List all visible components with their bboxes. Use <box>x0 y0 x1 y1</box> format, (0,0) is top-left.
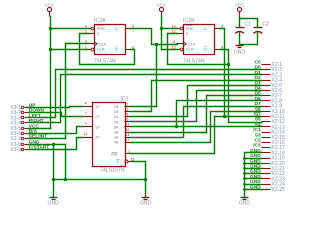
junction Q2 at X2-11 row <box>223 115 227 119</box>
connector pin X2-1 (C0) <box>262 62 283 68</box>
svg-text:3Y: 3Y <box>95 124 100 129</box>
svg-text:2: 2 <box>126 102 128 106</box>
wire into IC1 1B (pin 3) <box>131 111 152 113</box>
wire Q1 net down to IC1 1A <box>156 45 158 107</box>
wire D1 net X2-3 to X3-4 RIGHT <box>29 75 262 123</box>
connector pin X2-9 (D7) <box>262 104 283 110</box>
wire X3-7 SEL/INT to IC2A CLK (pin 3) <box>29 44 89 139</box>
wire /S7 net down to IC1 A/B <box>214 117 216 154</box>
wire D5 net X2-7 to IC1 3B (pin 10) <box>131 96 262 133</box>
ground symbol (middle) <box>140 198 152 207</box>
wire ground rail <box>54 179 146 181</box>
wire VCC to IC2A CLR (pin 1) <box>51 49 89 51</box>
connector pin X2-18 (GND) <box>262 150 286 156</box>
svg-text:VCC: VCC <box>45 3 55 8</box>
wire into IC1 1A (pin 2) <box>131 106 157 108</box>
wire S4 row IC1 3A (pin 11) to X2-13 <box>131 126 262 128</box>
wire VCC to IC2A PRE (pin 4) <box>51 28 89 30</box>
connector pin X3-1 (UP) <box>10 105 28 111</box>
junction GND row drop <box>52 143 56 147</box>
connector pin X2-20 (GND) <box>262 161 286 167</box>
wire VCC2 vertical <box>161 17 163 50</box>
junction GND rail <box>64 178 68 182</box>
svg-text:GND: GND <box>239 201 251 207</box>
junction bus X2-19 <box>243 157 246 160</box>
connector pin X2-4 (D2) <box>262 78 283 84</box>
wire IC2A Q (pin 5) to IC2B CLK (pin 11) <box>131 29 178 45</box>
junction VCC CLR1 <box>49 48 53 52</box>
svg-text:IC2A: IC2A <box>94 18 106 24</box>
wire GND row down to left GND symbol <box>53 145 55 197</box>
svg-text:4Y: 4Y <box>95 135 100 140</box>
connector pin X3-8 (GND) <box>10 142 28 148</box>
wire X3-6 B/A to IC1 3Y (pin 9) <box>29 127 83 134</box>
wire X2-25 to ground bus <box>245 189 262 191</box>
ground symbol (left) <box>48 198 60 207</box>
wire IC2B Q (pin 9) down to /S7 row <box>220 29 225 117</box>
junction VCC PRE1 <box>49 27 53 31</box>
connector pin X3-4 (RIGHT) <box>10 120 28 126</box>
junction bus X2-25 <box>243 188 246 191</box>
IC1 74LS157N quad 2-line multiplexer <box>83 97 135 174</box>
wire C1 bottom to ground <box>239 33 241 46</box>
capacitor C1 <box>235 22 251 34</box>
wire X2-24 to ground bus <box>245 184 262 186</box>
svg-text:15: 15 <box>131 157 135 161</box>
wire into IC1 A/B (pin 1) <box>131 153 215 155</box>
svg-text:GND: GND <box>48 201 60 207</box>
connector pin X2-16 (C2) <box>262 140 286 146</box>
wire /S7 row to X2-11 <box>215 116 262 118</box>
power symbol VCC (left, feeds IC2A PRE/CLR and X3-5) <box>45 3 55 17</box>
connector pin X2-7 (D5) <box>262 93 283 99</box>
connector pin X2-22 (GND) <box>262 171 286 177</box>
wire X3-2 DOWN to IC1 2Y (pin 7) <box>29 113 83 117</box>
svg-text:C2: C2 <box>262 22 269 28</box>
wire VCC to X3-5 <box>29 128 51 130</box>
svg-text:11: 11 <box>172 40 176 44</box>
connector pin X2-10 (S6) <box>262 109 286 115</box>
connector pin X2-23 (GND) <box>262 176 286 182</box>
wire X2-22 to ground bus <box>245 173 262 175</box>
connector pin X3-5 (VCC) <box>10 126 28 132</box>
wire VCC net vertical from VCC symbol down to X3-5 <box>50 17 52 129</box>
wire VCC3 branch to C2 top <box>240 19 258 28</box>
svg-text:G: G <box>116 159 119 164</box>
connector pin X2-11 (/S7) <box>262 114 285 120</box>
svg-text:14: 14 <box>125 133 129 137</box>
svg-text:74LS74N: 74LS74N <box>183 58 205 64</box>
wire IC2B Q-bar (pin 8) down to X2-12 S5 <box>220 50 262 123</box>
connector pin X3-7 (SEL/INT) <box>10 136 28 142</box>
wire D0 net X2-2 to X3-3 LEFT <box>29 70 262 118</box>
svg-text:6: 6 <box>126 118 128 122</box>
connector pin X2-14 (/C1) <box>262 130 286 136</box>
svg-text:74LS74N: 74LS74N <box>94 58 116 64</box>
junction bus X2-22 <box>243 172 246 175</box>
junction bus X2-21 <box>243 167 246 170</box>
junction VCC2 PRE2 <box>160 27 164 31</box>
svg-text:1: 1 <box>128 150 130 154</box>
svg-text:D: D <box>97 31 100 36</box>
connector pin X2-2 (D0) <box>262 67 283 73</box>
junction QB2 feedback <box>227 63 231 67</box>
wire D7 net X2-9 to IC1 4A (pin 14) <box>131 107 262 138</box>
wire X2-20 to ground bus <box>245 163 262 165</box>
svg-text:GND: GND <box>140 201 152 207</box>
svg-text:11: 11 <box>126 123 130 127</box>
connector pin X2-13 (S4) <box>262 124 286 130</box>
svg-text:1Y: 1Y <box>95 104 100 109</box>
wire X2-19 to ground bus <box>245 158 262 160</box>
connector pin X2-5 (D3) <box>262 83 283 89</box>
junction G rail <box>144 178 148 182</box>
svg-text:GND: GND <box>234 50 246 56</box>
capacitor C2 <box>253 22 269 34</box>
svg-text:X3-9: X3-9 <box>10 147 21 153</box>
wire C2 bottom joins C1 <box>240 33 258 45</box>
wire IC2B Q-bar feedback to IC2B D (pin 12) <box>168 34 229 65</box>
flip-flop IC2A 74LS74N <box>85 18 135 65</box>
ground symbol (capacitors) <box>234 46 246 56</box>
svg-text:4: 4 <box>85 101 87 105</box>
wire D3 net X2-5 to IC1 2A (pin 5) <box>131 86 262 117</box>
svg-text:C0: C0 <box>255 60 261 66</box>
svg-text:5: 5 <box>126 113 128 117</box>
wire X3-8 GND down to ground rail <box>29 145 66 180</box>
svg-text:12: 12 <box>84 132 88 136</box>
svg-text:IC2B: IC2B <box>183 18 195 24</box>
connector pin X2-8 (D6) <box>262 98 283 104</box>
wire X3-9 C/START to IC1 4Y (pin 12) <box>29 138 83 150</box>
svg-text:74LS157N: 74LS157N <box>100 167 125 173</box>
junction bus X2-20 <box>243 162 246 165</box>
svg-text:2Y: 2Y <box>95 114 100 119</box>
wire D6 net X2-8 down to 3A row <box>177 101 262 127</box>
svg-text:Q: Q <box>115 26 118 31</box>
junction rail left <box>52 178 56 182</box>
wire D2 row to X2-4 <box>152 80 262 82</box>
connector pin X2-25 (GND) <box>262 187 286 193</box>
svg-text:IC1: IC1 <box>121 97 129 103</box>
connector pin X2-24 (GND) <box>262 182 286 188</box>
wire VCC2 to IC2B CLR (pin 13) <box>162 49 178 51</box>
connector pin X2-21 (GND) <box>262 166 286 172</box>
connector pin X2-6 (D4) <box>262 88 283 94</box>
connector pin X3-6 (B/A) <box>10 131 28 137</box>
svg-text:4B: 4B <box>114 140 119 145</box>
wire IC2A Q-bar (pin 6) to IC2A D (pin 2) toggle loop <box>80 34 135 65</box>
wire IC1 G (pin 15) to ground <box>132 162 146 197</box>
connector pin X2-3 (D1) <box>262 72 283 78</box>
wire VCC3 to C1 top <box>239 17 241 28</box>
svg-text:Q: Q <box>204 26 207 31</box>
junction bus X2-23 <box>243 177 246 180</box>
connector pin X3-9 (C/START) <box>10 147 28 153</box>
junction bus X2-24 <box>243 183 246 186</box>
svg-text:X2-25: X2-25 <box>272 187 286 193</box>
svg-text:Q: Q <box>115 47 118 52</box>
svg-text:C2: C2 <box>255 138 261 144</box>
svg-text:VCC: VCC <box>235 3 245 8</box>
svg-text:Q: Q <box>204 47 207 52</box>
svg-text:7: 7 <box>85 112 87 116</box>
wire D4 net X2-6 to IC1 2B (pin 6) <box>131 91 262 122</box>
wire D2 net vertical <box>151 81 153 112</box>
svg-text:S3: S3 <box>255 132 261 138</box>
power symbol VCC (right, feeds C1 C2) <box>235 3 245 17</box>
power symbol VCC (middle, feeds IC2B PRE/CLR) <box>157 3 167 17</box>
junction D6 3A S4 <box>175 125 179 129</box>
svg-text:3: 3 <box>126 107 128 111</box>
wire VCC2 to IC2B PRE (pin 10) <box>162 28 178 30</box>
svg-text:9: 9 <box>85 122 87 126</box>
connector pin X3-3 (LEFT) <box>10 115 28 121</box>
connector pin X2-17 (/C3) <box>262 145 286 151</box>
svg-text:/C3: /C3 <box>253 143 261 149</box>
junction Q1 net branch to 1A <box>155 43 159 47</box>
flip-flop IC2B 74LS74N <box>172 18 224 65</box>
svg-text:CLR: CLR <box>97 47 105 52</box>
svg-text:CLR: CLR <box>186 47 194 52</box>
connector pin X2-15 (S3) <box>262 135 286 141</box>
svg-text:C1: C1 <box>244 22 251 28</box>
svg-text:10: 10 <box>125 128 129 132</box>
wire X3-1 UP to IC1 1Y (pin 4) <box>29 107 83 108</box>
wire X2 ground bus <box>245 153 262 197</box>
svg-text:VCC: VCC <box>157 3 167 8</box>
connector pin X2-12 (S5) <box>262 119 286 125</box>
svg-text:D: D <box>186 31 189 36</box>
connector pin X2-19 (GND) <box>262 156 286 162</box>
connector pin X3-2 (DOWN) <box>10 110 28 116</box>
wire X2-23 to ground bus <box>245 178 262 180</box>
ground symbol (X2 bus) <box>239 198 251 207</box>
svg-text:/C1: /C1 <box>253 127 261 133</box>
wire S6 net X2-10 to IC1 4B (pin 13) <box>131 112 262 143</box>
wire X2-21 to ground bus <box>245 168 262 170</box>
svg-text:13: 13 <box>125 138 129 142</box>
